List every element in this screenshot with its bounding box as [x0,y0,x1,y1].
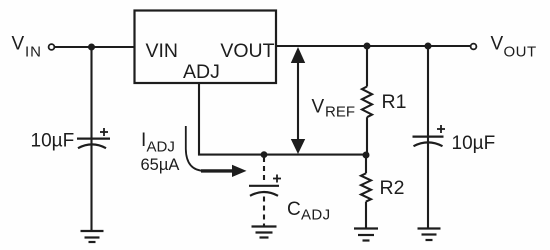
wire R2 top lead [365,155,367,173]
wire to input cap [90,47,92,231]
label V_OUT [491,34,537,61]
regulator U1 box [135,11,277,84]
svg-text:ADJ: ADJ [183,61,220,83]
svg-text:REF: REF [325,104,355,121]
svg-text:VIN: VIN [146,40,179,62]
ground output cap [418,229,441,241]
svg-text:65µA: 65µA [141,156,180,174]
label V_REF [312,97,356,121]
wire output [276,45,470,47]
wire dashed C_ADJ top [263,157,265,184]
node R1 top [364,43,371,50]
svg-text:C: C [287,199,301,220]
node output cap top [425,43,432,50]
capacitor C_OUT plates [413,137,444,147]
capacitor C_ADJ plates [249,186,279,196]
terminal VIN [49,44,55,50]
svg-text:OUT: OUT [504,44,537,61]
svg-text:V: V [312,97,325,118]
svg-text:10µF: 10µF [31,131,75,152]
svg-text:ADJ: ADJ [147,139,175,156]
resistor R2 [361,173,371,201]
resistor R1 [362,87,372,118]
node C_ADJ tap [261,151,268,158]
svg-text:V: V [12,34,25,55]
svg-text:VOUT: VOUT [220,40,274,62]
wire input [55,46,135,48]
arrow V_REF double-headed [291,47,305,154]
ground C_ADJ [252,227,277,238]
current arrow I_ADJ [186,126,247,177]
svg-text:R2: R2 [380,177,405,199]
capacitor C_IN plates [77,139,110,149]
svg-text:IN: IN [25,44,42,61]
svg-text:10µF: 10µF [452,133,496,154]
wire output cap top [427,46,429,229]
label C_ADJ [287,199,331,224]
terminal VOUT [471,44,477,50]
capacitor C_OUT plus sign [437,125,445,133]
wire R1 bottom lead [366,117,368,155]
label V_IN [12,34,43,61]
wire R2 bottom lead [365,202,367,229]
ground R2 [354,229,378,241]
node input junction [88,44,95,51]
capacitor C_IN plus sign [100,128,108,136]
wire dashed C_ADJ bottom [263,197,265,227]
svg-text:V: V [491,34,504,55]
label I_ADJ [141,130,175,156]
svg-text:ADJ: ADJ [301,207,331,224]
svg-text:R1: R1 [382,91,407,113]
ground input cap [81,231,104,242]
wire ADJ pin vertical [199,83,366,155]
capacitor C_ADJ plus sign [273,175,281,183]
node R1/R2 junction [363,152,370,159]
svg-text:I: I [141,130,146,151]
wire R1 top lead [366,46,368,87]
